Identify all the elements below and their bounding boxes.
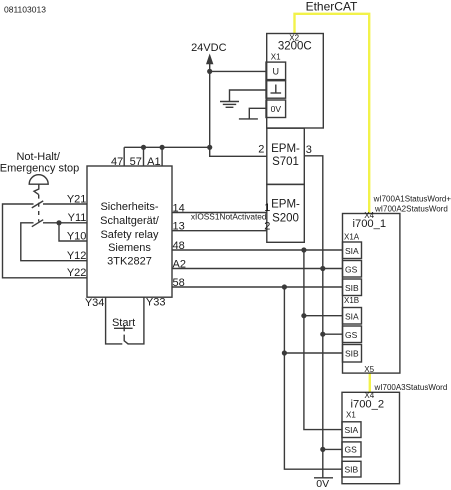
terminal SIB X1B box [343, 345, 362, 363]
pushbutton estop mushroom head [29, 175, 48, 185]
node X1B SIA junction [301, 313, 306, 318]
wire EtherCAT (yellow) X5 to i700_2 [369, 373, 371, 392]
wire 48 to SIA terminals [172, 249, 343, 251]
node X1B SIB junction [282, 350, 287, 355]
svg-text:A1: A1 [147, 156, 160, 168]
wire A2 to GS terminals [172, 268, 343, 270]
svg-text:i700_2: i700_2 [350, 398, 384, 410]
wire 24VDC vertical and to EPM-S701 pin 2 [210, 62, 267, 156]
svg-text:SIA: SIA [345, 246, 359, 256]
node i700_2 GS junction [320, 447, 325, 452]
wire 13 to EPM-S200 pin 2 [172, 230, 267, 232]
svg-text:Siemens: Siemens [108, 242, 151, 254]
svg-text:EtherCAT: EtherCAT [306, 0, 358, 13]
ground earth symbol [220, 102, 239, 108]
svg-text:2: 2 [264, 220, 270, 232]
svg-text:EPM-: EPM- [271, 199, 300, 211]
svg-text:S200: S200 [272, 213, 299, 225]
device box 3200C [267, 34, 324, 129]
svg-text:13: 13 [173, 221, 185, 233]
svg-text:Y21: Y21 [67, 193, 87, 205]
terminal GS X1A box [343, 261, 362, 278]
module EPM-S200 box [267, 184, 305, 242]
terminal U box [266, 62, 286, 80]
svg-text:S701: S701 [272, 156, 299, 168]
svg-text:X2: X2 [289, 33, 299, 42]
svg-text:Y12: Y12 [67, 250, 87, 262]
terminal PE symbol inside box [271, 85, 282, 94]
svg-text:X1B: X1B [344, 296, 359, 305]
wire EPM-S701 pin 3 to 0V rail [304, 156, 323, 478]
terminal PE box [266, 81, 286, 99]
svg-text:Y33: Y33 [146, 297, 166, 309]
svg-text:wI700A1StatusWord+: wI700A1StatusWord+ [373, 195, 451, 204]
svg-text:Y34: Y34 [85, 297, 105, 309]
terminal SIA X1A box [343, 242, 362, 259]
svg-text:Schaltgerät/: Schaltgerät/ [100, 215, 160, 227]
svg-text:0V: 0V [316, 478, 329, 490]
wire stub A1 [161, 147, 163, 166]
wire Y10 to Y11 junction [59, 223, 87, 241]
svg-text:wI700A3StatusWord: wI700A3StatusWord [374, 383, 448, 392]
contact estop 2 arm [32, 220, 43, 227]
ground 0V bar symbol [239, 118, 258, 120]
svg-text:U: U [273, 67, 280, 77]
svg-text:Start: Start [112, 317, 135, 329]
node 48 junction [301, 247, 306, 252]
svg-text:Emergency stop: Emergency stop [0, 163, 79, 175]
ground 0V bar bottom [314, 477, 333, 479]
terminal SIB X1A box [343, 279, 362, 296]
safety relay box 3TK2827 [87, 166, 172, 297]
terminal SIA X1B box [343, 308, 362, 325]
terminal GS X1 box [342, 442, 361, 457]
svg-text:X1A: X1A [344, 233, 360, 242]
svg-text:Y11: Y11 [68, 212, 87, 224]
svg-text:SIB: SIB [345, 465, 359, 475]
svg-text:081103013: 081103013 [4, 5, 46, 15]
estop actuator linkage [34, 184, 39, 194]
drive i700_2 box [342, 392, 400, 483]
svg-text:47: 47 [111, 156, 123, 168]
svg-text:3TK2827: 3TK2827 [107, 256, 152, 268]
contact start button arm [124, 335, 128, 345]
svg-text:58: 58 [173, 277, 185, 289]
wire 0V terminal to 0V bar [249, 108, 266, 119]
wire Y34/Y33 start loop [106, 297, 123, 344]
wire Y21-Y22 loop through estop contact 1 [43, 203, 87, 205]
svg-text:X1: X1 [271, 53, 281, 62]
svg-text:X5: X5 [364, 365, 374, 374]
svg-text:3: 3 [306, 144, 312, 156]
wire stub 57 [143, 147, 145, 166]
svg-text:GS: GS [345, 445, 358, 455]
svg-text:A2: A2 [173, 258, 186, 270]
node Y11/Y10 junction [56, 220, 61, 225]
terminal 0V box [266, 100, 286, 118]
svg-text:Not-Halt/: Not-Halt/ [16, 151, 60, 163]
node supply rail junctions [141, 145, 146, 150]
svg-text:Y10: Y10 [67, 230, 87, 242]
wire supply rail to 47/57/A1 [124, 146, 210, 148]
svg-text:xIOSS1NotActivated: xIOSS1NotActivated [191, 212, 267, 222]
terminal SIA X1 box [342, 422, 361, 438]
terminal SIB X1 box [342, 461, 361, 477]
module EPM-S701 box [267, 128, 305, 184]
svg-text:GS: GS [345, 264, 358, 274]
svg-text:wI700A2StatusWord: wI700A2StatusWord [374, 205, 448, 214]
svg-text:24VDC: 24VDC [191, 42, 227, 54]
contact estop 1 arm [32, 201, 43, 208]
svg-text:X1: X1 [346, 411, 356, 420]
svg-text:Safety relay: Safety relay [100, 229, 159, 241]
node X1B GS junction [320, 332, 325, 337]
terminal GS X1B box [343, 326, 362, 343]
wire EtherCAT (yellow) top run [295, 14, 370, 214]
svg-text:SIB: SIB [345, 349, 359, 359]
svg-text:EPM-: EPM- [271, 143, 300, 155]
svg-text:14: 14 [173, 202, 185, 214]
wire stub 47 [123, 147, 125, 166]
pushbutton start actuator [114, 327, 133, 329]
wire 58 to SIB terminals [172, 286, 343, 288]
svg-text:SIB: SIB [345, 283, 359, 293]
24VDC arrow [206, 54, 213, 65]
svg-text:Y22: Y22 [67, 267, 87, 279]
svg-text:SIA: SIA [345, 311, 359, 321]
wire PE terminal to earth [230, 90, 267, 102]
wire Y11-Y12 loop through estop contact 2 [43, 222, 87, 224]
wire 24VDC to U terminal [210, 70, 266, 72]
drive i700_1 box [343, 214, 400, 374]
svg-text:57: 57 [130, 156, 142, 168]
svg-text:SIA: SIA [345, 425, 359, 435]
node A2 junction [320, 266, 325, 271]
svg-text:X4: X4 [364, 391, 374, 400]
svg-text:Sicherheits-: Sicherheits- [100, 201, 158, 213]
svg-text:GS: GS [345, 330, 358, 340]
svg-text:2: 2 [258, 143, 264, 155]
wire 14 to EPM-S200 pin 1 [172, 212, 267, 214]
svg-text:0V: 0V [271, 104, 282, 114]
node 58 junction [282, 284, 287, 289]
svg-text:X4: X4 [364, 211, 374, 220]
svg-text:48: 48 [173, 240, 185, 252]
